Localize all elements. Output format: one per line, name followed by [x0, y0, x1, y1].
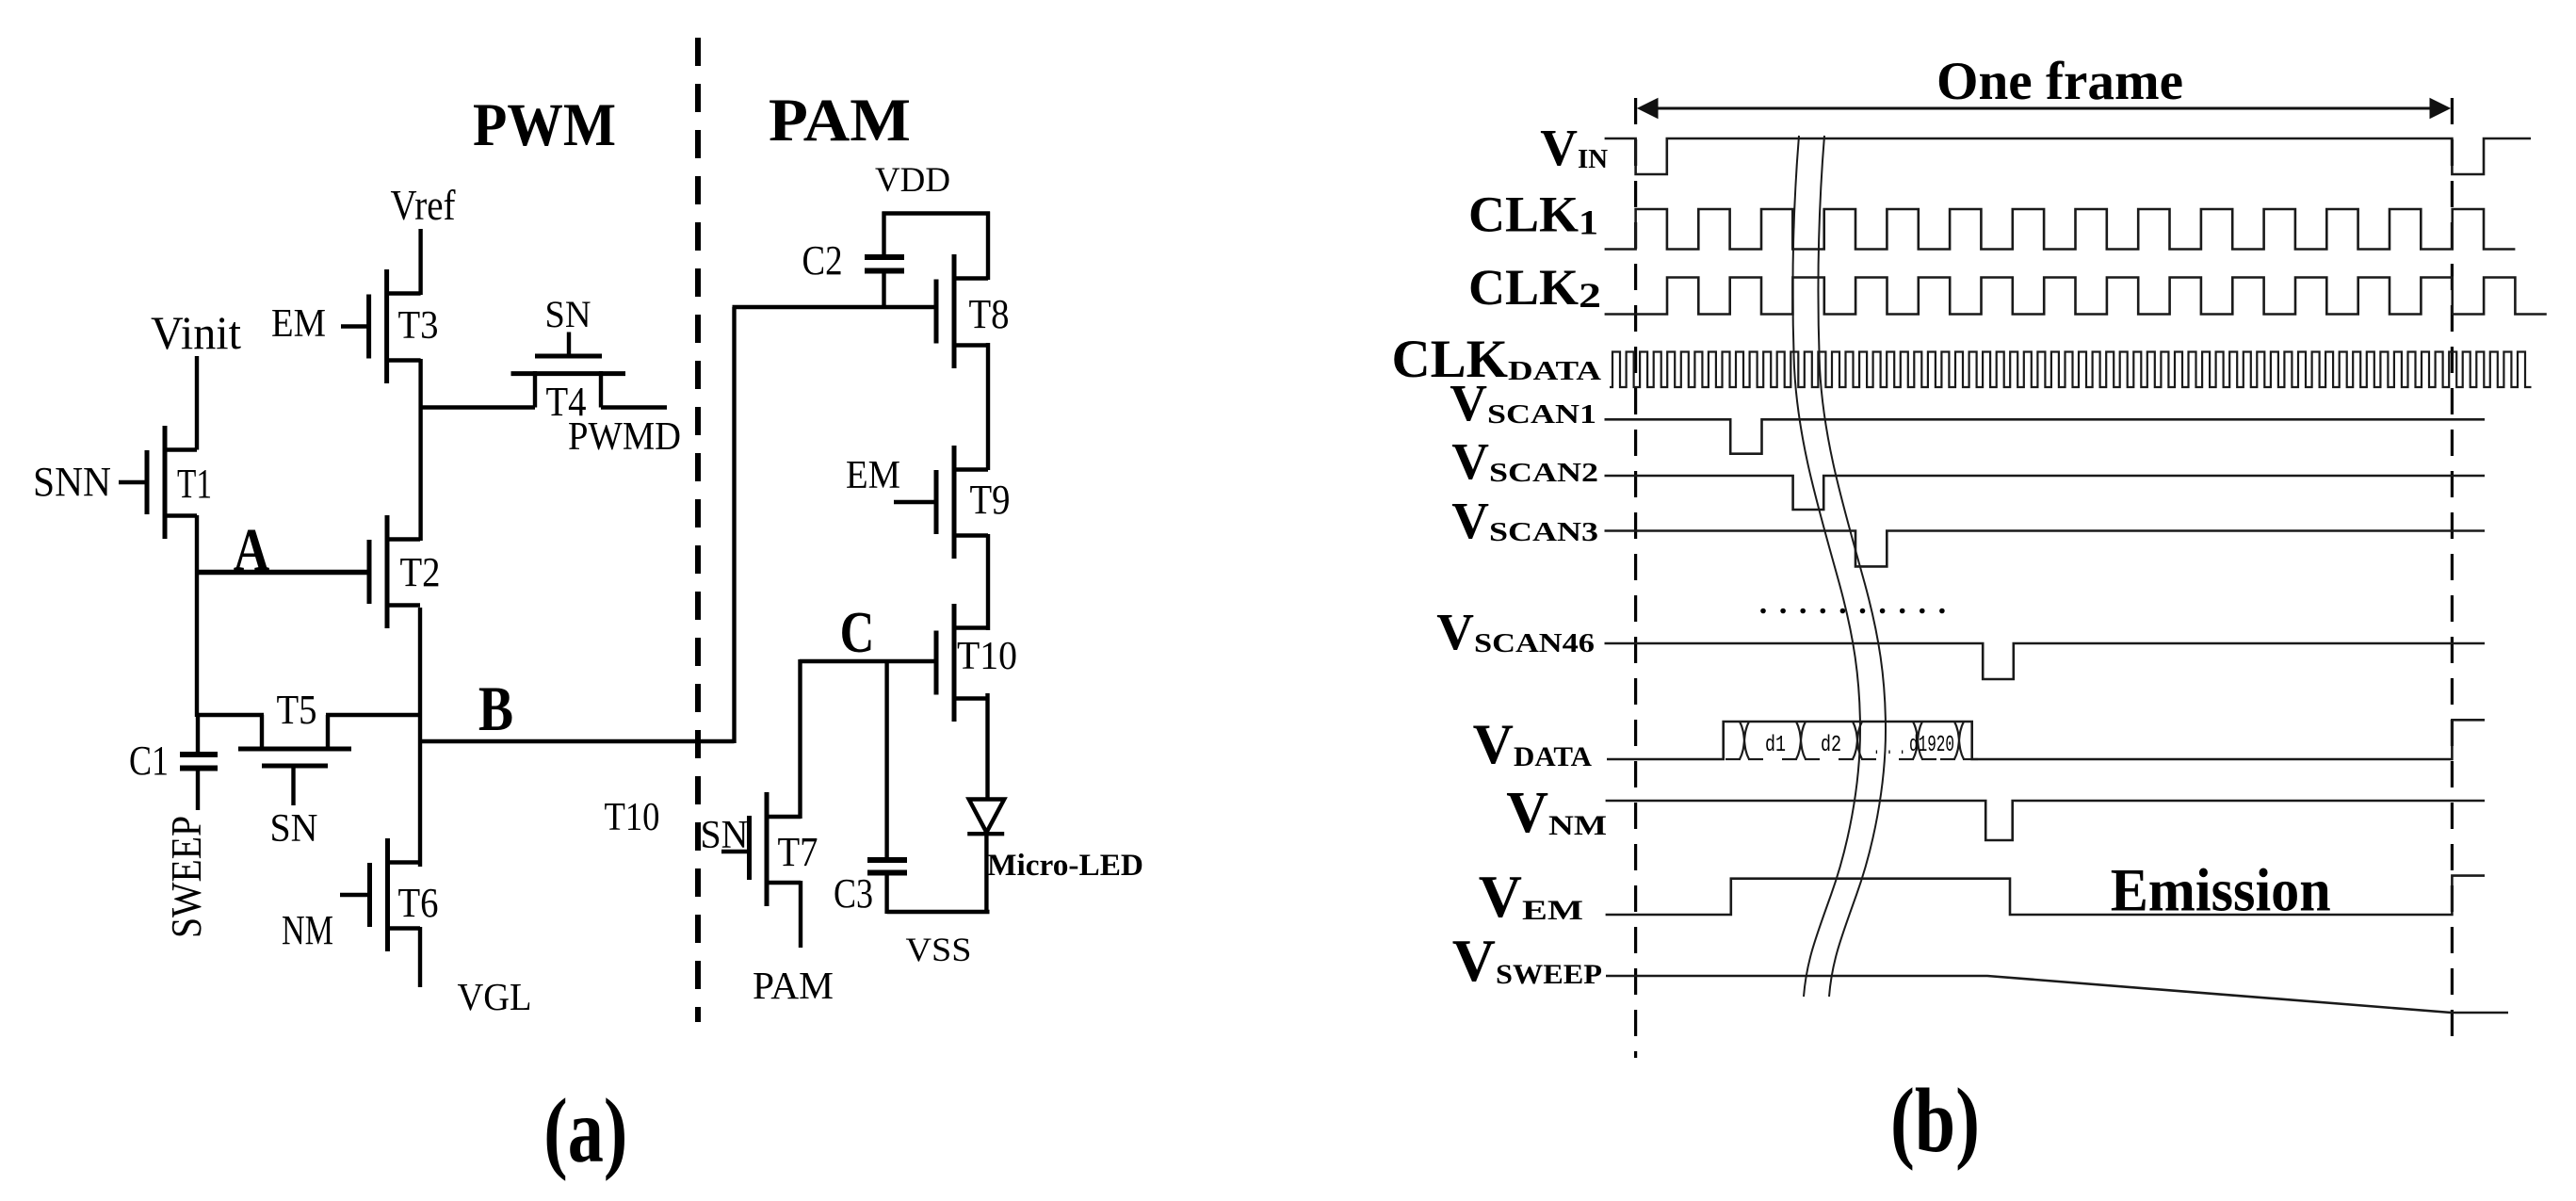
- Vref supply lead: [418, 229, 422, 295]
- svg-text:V: V: [1451, 432, 1489, 490]
- label A: [234, 515, 270, 583]
- svg-text:d2: d2: [1821, 733, 1841, 758]
- svg-text:EM: EM: [1522, 895, 1583, 926]
- svg-text:CLK: CLK: [1468, 187, 1579, 243]
- ellipsis dots between scan rows: [1760, 609, 1945, 614]
- wire T8 source to T9 drain: [986, 343, 990, 470]
- svg-text:T2: T2: [400, 549, 441, 595]
- waveform V_SCAN3: [1605, 531, 2486, 567]
- waveform V_IN: [1605, 138, 2531, 174]
- svg-text:B: B: [478, 674, 513, 744]
- svg-text:(b): (b): [1890, 1070, 1980, 1172]
- svg-text:V: V: [1540, 119, 1578, 176]
- svg-text:Vref: Vref: [391, 181, 457, 229]
- svg-text:V: V: [1506, 781, 1548, 845]
- wire T2 to node B to T6: [418, 608, 422, 867]
- svg-text:(a): (a): [543, 1080, 627, 1182]
- svg-text:V: V: [1450, 374, 1487, 431]
- svg-text:V: V: [1451, 492, 1489, 549]
- svg-text:1: 1: [1579, 204, 1598, 243]
- svg-text:SN: SN: [545, 293, 591, 335]
- T8 gate wire: [733, 305, 937, 309]
- waveform V_DATA baseline and burst: [1607, 720, 2485, 759]
- transistor T1: [119, 426, 197, 539]
- label C: [840, 600, 875, 665]
- transistor T8: [936, 254, 988, 368]
- svg-text:C: C: [840, 600, 875, 665]
- waveform V_NM: [1606, 801, 2485, 840]
- svg-text:SCAN3: SCAN3: [1489, 518, 1598, 547]
- svg-text:T7: T7: [778, 829, 818, 875]
- waveform CLK_DATA: [1610, 352, 2532, 388]
- svg-text:T8: T8: [969, 291, 1010, 337]
- node C wire: [800, 659, 936, 663]
- wire T3 to T2: [418, 359, 422, 541]
- svg-text:Emission: Emission: [2111, 857, 2331, 925]
- wire T9 source to T10 drain: [986, 534, 990, 630]
- svg-text:T9: T9: [970, 477, 1011, 523]
- transistor T6: [340, 838, 420, 951]
- svg-text:C1: C1: [129, 738, 169, 784]
- svg-text:PWMD: PWMD: [568, 415, 681, 459]
- bottom wire C3 to LED / VSS: [887, 910, 990, 914]
- svg-text:VSS: VSS: [906, 931, 972, 968]
- waveform V_SCAN1: [1605, 419, 2486, 453]
- wire node C down to T7: [798, 659, 802, 819]
- capacitor C3: [867, 659, 907, 914]
- svg-text:. . .: . . .: [1873, 736, 1905, 761]
- transistor T7: [721, 792, 801, 906]
- svg-text:One frame: One frame: [1936, 52, 2183, 111]
- svg-text:SN: SN: [270, 807, 318, 851]
- svg-text:V: V: [1479, 863, 1522, 930]
- svg-text:Vinit: Vinit: [151, 306, 241, 359]
- svg-text:V: V: [1473, 713, 1514, 775]
- svg-text:T1: T1: [177, 461, 212, 507]
- svg-text:CLK: CLK: [1468, 259, 1579, 316]
- svg-text:d1: d1: [1765, 733, 1786, 758]
- svg-text:C3: C3: [834, 870, 873, 917]
- svg-text:Micro-LED: Micro-LED: [987, 849, 1143, 883]
- time break curve 1: [1792, 136, 1860, 997]
- svg-text:VGL: VGL: [458, 975, 532, 1018]
- svg-text:EM: EM: [846, 454, 900, 497]
- One frame arrow: [1638, 99, 2450, 119]
- waveform V_SCAN46: [1605, 643, 2486, 679]
- svg-text:T6: T6: [398, 880, 439, 926]
- svg-text:NM: NM: [282, 907, 333, 953]
- transistor T2: [197, 515, 420, 628]
- Vinit supply lead: [195, 356, 199, 450]
- transistor T9: [894, 446, 988, 559]
- frame boundary dashed line (right): [2451, 98, 2454, 1049]
- svg-text:T10: T10: [957, 635, 1017, 678]
- Micro-LED diode: [967, 800, 1004, 915]
- dashed separator between PWM and PAM: [695, 38, 701, 1022]
- waveform V_SCAN2: [1605, 476, 2486, 510]
- waveform CLK2: [1605, 278, 2547, 315]
- svg-text:DATA: DATA: [1508, 356, 1601, 386]
- svg-text:SCAN1: SCAN1: [1487, 400, 1596, 430]
- svg-text:PAM: PAM: [769, 87, 911, 154]
- svg-text:VDD: VDD: [875, 161, 950, 200]
- svg-text:C2: C2: [802, 237, 843, 284]
- svg-text:SWEEP: SWEEP: [162, 816, 210, 938]
- svg-text:PAM: PAM: [753, 964, 834, 1007]
- wire T6 to VGL: [418, 927, 422, 987]
- svg-text:SCAN46: SCAN46: [1474, 629, 1595, 658]
- svg-text:SCAN2: SCAN2: [1489, 459, 1598, 488]
- transistor T5: [196, 715, 422, 805]
- waveform V_EM: [1606, 876, 2485, 915]
- wire T10 source to LED: [985, 693, 989, 800]
- svg-text:T10: T10: [605, 796, 660, 839]
- svg-text:SN: SN: [701, 814, 749, 857]
- waveform V_SWEEP: [1606, 976, 2508, 1013]
- time break curve 2: [1818, 136, 1886, 997]
- node B wire: [420, 739, 735, 743]
- node A wire: [195, 571, 369, 575]
- transistor T4: [511, 333, 626, 408]
- svg-text:EM: EM: [271, 302, 326, 346]
- svg-text:T3: T3: [398, 304, 439, 348]
- svg-text:NM: NM: [1548, 810, 1607, 841]
- svg-text:IN: IN: [1578, 145, 1608, 174]
- wire node A vertical: [195, 515, 199, 717]
- svg-text:SNN: SNN: [33, 459, 111, 505]
- svg-text:d1920: d1920: [1909, 733, 1954, 758]
- svg-text:V: V: [1436, 603, 1474, 660]
- waveform CLK1: [1605, 209, 2516, 250]
- label B: [478, 674, 513, 744]
- transistor T10: [936, 604, 988, 722]
- svg-text:DATA: DATA: [1514, 741, 1592, 772]
- capacitor C1: [180, 715, 218, 810]
- label SWEEP (rotated): [162, 816, 210, 938]
- svg-text:PWM: PWM: [473, 91, 616, 159]
- svg-text:2: 2: [1579, 277, 1601, 316]
- V_DATA crossovers: [1725, 722, 1978, 759]
- wire T7 to PAM terminal: [799, 881, 802, 948]
- VDD rail: [883, 211, 991, 215]
- wire node B up to T8 gate: [732, 307, 736, 743]
- wire VDD to T8 drain: [986, 212, 990, 281]
- wire T4 to PWMD: [601, 405, 667, 409]
- transistor T3: [341, 269, 421, 383]
- frame boundary dashed line (left): [1634, 98, 1637, 1058]
- wire T3/T2 node to T4: [421, 405, 535, 409]
- svg-text:V: V: [1452, 927, 1496, 994]
- svg-text:T5: T5: [277, 687, 317, 733]
- svg-text:SWEEP: SWEEP: [1496, 959, 1602, 990]
- capacitor C2: [865, 212, 904, 310]
